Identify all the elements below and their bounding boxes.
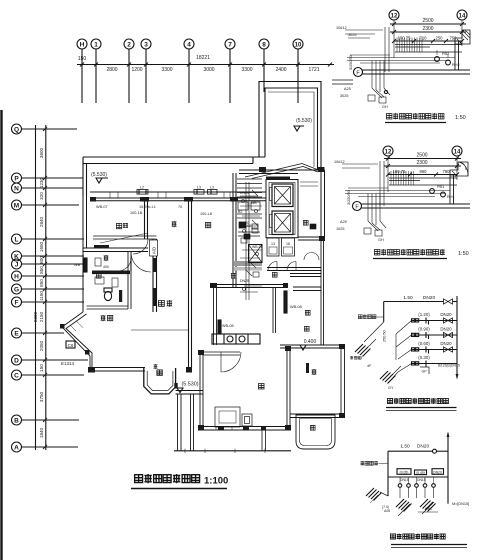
svg-text:WB: WB	[251, 201, 257, 205]
kitchen counter bottom	[212, 334, 260, 344]
svg-text:L: L	[15, 237, 19, 244]
svg-text:(0.05): (0.05)	[400, 470, 409, 474]
svg-text:H: H	[80, 42, 85, 49]
detail A grid drops	[394, 20, 462, 58]
bottom bedroom window ticks	[216, 427, 264, 431]
svg-text:(0.90): (0.90)	[418, 327, 430, 332]
bay tag C6	[66, 341, 75, 348]
study radiator black	[306, 363, 309, 373]
svg-text:760: 760	[443, 169, 451, 174]
grid line 10v	[297, 49, 299, 103]
grid bubble B	[12, 415, 22, 425]
room label dining	[172, 221, 177, 227]
svg-text:DN20: DN20	[417, 444, 430, 450]
svg-text:1:50: 1:50	[455, 115, 466, 121]
bath fixtures toilet	[104, 288, 112, 301]
svg-text:2: 2	[127, 42, 131, 49]
entry wall right unit lower	[293, 287, 322, 291]
svg-text:L3: L3	[210, 186, 214, 190]
svg-text:1025: 1025	[336, 227, 344, 231]
riser2 top pipe	[388, 444, 448, 454]
svg-text:PB1: PB1	[437, 185, 444, 189]
riser2 right vertical with arrow	[447, 432, 450, 504]
svg-text:A05: A05	[384, 509, 390, 513]
grid line 4v	[188, 49, 190, 103]
svg-text:250.50: 250.50	[383, 330, 387, 342]
svg-text:320: 320	[39, 192, 44, 200]
svg-text:GP1: GP1	[425, 507, 432, 511]
svg-text:G: G	[14, 287, 19, 294]
svg-text:H: H	[14, 274, 19, 281]
svg-text:J: J	[15, 262, 19, 269]
bath radiator black	[119, 290, 122, 302]
left dimension texts rotated	[33, 147, 44, 438]
detail B dim 2300	[384, 160, 461, 168]
svg-text:B: B	[14, 418, 19, 425]
riser2 radiator hatch 2	[418, 499, 438, 514]
svg-text:8: 8	[262, 42, 266, 49]
riser1 caption	[386, 398, 457, 411]
piping cluster left of core	[240, 182, 262, 300]
small labels under top wall	[96, 205, 212, 216]
hall mid wall	[212, 285, 287, 288]
detail B bottom wall	[362, 204, 471, 208]
detail B bubble 14	[452, 146, 462, 156]
svg-text:18: 18	[286, 242, 290, 246]
bottom-right balcony	[296, 415, 335, 449]
small room box	[95, 258, 109, 269]
terrace mid verticals	[262, 430, 266, 451]
window bay right-mid railing	[300, 182, 318, 186]
elevator 1	[272, 184, 293, 207]
room label small hall	[154, 364, 158, 369]
riser2 left vertical	[387, 451, 389, 496]
svg-text:WB-05: WB-05	[252, 245, 263, 249]
grid bubble C	[12, 370, 22, 380]
bath small boxes	[95, 277, 118, 287]
riser2 caption	[390, 534, 467, 548]
riser1 bracket symbol	[420, 367, 429, 374]
roof slope diagonals	[245, 164, 321, 179]
grid bubble M	[12, 200, 22, 210]
riser1 control valve label	[358, 315, 383, 320]
svg-text:(0.30): (0.30)	[418, 355, 430, 360]
svg-text:2500: 2500	[422, 18, 433, 24]
riser1 arrow labels	[367, 364, 394, 390]
grid bubble 10	[293, 39, 303, 49]
svg-text:13: 13	[271, 242, 275, 246]
detail A bubble 12	[389, 10, 399, 20]
detail A down pipes	[368, 61, 390, 104]
svg-text:12: 12	[385, 150, 392, 156]
bath door arc	[118, 258, 131, 271]
detail A F bubble	[354, 68, 363, 77]
svg-text:1: 1	[94, 42, 98, 49]
level marker 5.530 tower	[294, 118, 312, 131]
radiator top 1	[137, 186, 148, 195]
detail B valve circles	[430, 185, 455, 199]
hall entry door arc	[131, 252, 151, 272]
interior vertical right of hall	[273, 288, 276, 334]
party wall vertical center	[189, 288, 192, 368]
svg-text:(5.530): (5.530)	[91, 172, 107, 178]
grid bubble D	[12, 355, 22, 365]
grid bubble P	[12, 173, 22, 183]
svg-text:1:50: 1:50	[458, 251, 469, 257]
detail A bubble 14	[457, 10, 467, 20]
riser1 radiator symbol up	[355, 322, 384, 357]
bedroom sill black marks	[218, 427, 266, 430]
svg-text:P: P	[14, 176, 19, 183]
svg-text:3300: 3300	[161, 67, 172, 73]
grid bubble N	[12, 183, 22, 193]
svg-text:L2: L2	[140, 186, 144, 190]
left edge tag A/D	[150, 240, 158, 256]
svg-text:2300: 2300	[416, 160, 427, 166]
grid bubble 7	[225, 39, 235, 49]
grid bubble A	[12, 442, 22, 452]
svg-text:3: 3	[144, 42, 148, 49]
svg-text:DN20: DN20	[440, 327, 452, 332]
svg-text:M=[DN15]: M=[DN15]	[452, 502, 469, 506]
entry scallop doors	[304, 253, 319, 261]
svg-text:14: 14	[454, 150, 461, 156]
svg-text:(5.530): (5.530)	[181, 382, 198, 388]
svg-text:10#12: 10#12	[336, 26, 347, 30]
svg-text:GH: GH	[382, 105, 388, 109]
svg-text:DN25: DN25	[240, 191, 249, 195]
svg-text:10#12: 10#12	[334, 160, 345, 164]
corridor wall under left rooms	[93, 236, 157, 239]
svg-text:800: 800	[39, 256, 44, 264]
riser1 top valve	[444, 299, 453, 304]
hall floor step line	[131, 329, 188, 331]
detail B grid drops	[388, 156, 457, 192]
room label bedroom1	[116, 223, 121, 228]
room label right mid b	[304, 326, 309, 331]
detail B caption	[373, 249, 469, 259]
svg-text:3600: 3600	[39, 147, 44, 158]
grid bubble 4	[184, 39, 194, 49]
svg-text:100-1B: 100-1B	[130, 211, 143, 215]
detail B pipes	[342, 161, 450, 206]
hall left wall black seg	[153, 258, 157, 306]
svg-text:DN20: DN20	[433, 470, 442, 474]
corridor leader line	[100, 233, 148, 243]
svg-text:1:100: 1:100	[204, 476, 228, 487]
grid bubble G	[12, 284, 22, 294]
grid line 1v	[81, 49, 83, 103]
left radiator on wall	[74, 258, 87, 272]
svg-text:3000: 3000	[203, 67, 214, 73]
riser2 left label glyphs	[360, 461, 388, 466]
room label kitchen	[205, 222, 210, 227]
right lower room top wall	[280, 345, 345, 348]
right-mid small box	[310, 224, 316, 229]
svg-text:2400: 2400	[275, 67, 286, 73]
terrace small box	[242, 414, 252, 426]
detail B bottom labels	[336, 220, 384, 242]
svg-text:(1.20): (1.20)	[418, 312, 430, 317]
detail A dim 2300	[390, 26, 466, 34]
grid bubble 3	[141, 39, 151, 49]
svg-text:250: 250	[436, 36, 444, 41]
svg-text:C: C	[14, 373, 19, 380]
room label study	[312, 369, 317, 375]
riser1 row 4	[412, 355, 460, 368]
svg-text:GH: GH	[378, 238, 384, 242]
svg-text:DN15: DN15	[417, 478, 426, 482]
svg-text:1.50: 1.50	[403, 295, 413, 301]
entry wall right unit	[290, 274, 322, 277]
svg-text:A: A	[14, 445, 19, 452]
detail B down pipes	[364, 194, 386, 237]
svg-text:DN20: DN20	[440, 312, 452, 317]
svg-text:(5.530): (5.530)	[296, 118, 312, 124]
stairwell labels	[238, 210, 251, 228]
svg-text:10: 10	[295, 43, 302, 49]
left exterior wall	[83, 196, 87, 312]
interior wall room2-3	[189, 201, 192, 288]
riser1 row 2	[412, 327, 458, 340]
riser2 box row	[397, 469, 444, 475]
small room B below core	[282, 238, 295, 256]
detail B right wall	[450, 174, 454, 204]
room label bath	[96, 273, 101, 278]
left grid lines	[22, 128, 78, 130]
detail A left leader texts	[336, 26, 356, 37]
svg-text:15.70c-L1: 15.70c-L1	[139, 205, 156, 209]
svg-text:PB2: PB2	[442, 52, 449, 56]
bottom bedroom walls	[200, 348, 291, 430]
svg-text:1150: 1150	[39, 291, 44, 301]
detail A dim segments	[392, 36, 464, 44]
stair flight gray band 2	[234, 267, 262, 271]
room label bay bedroom	[101, 315, 113, 321]
wall below tower right	[298, 237, 325, 240]
svg-text:710: 710	[420, 36, 428, 41]
svg-text:18221: 18221	[196, 55, 210, 61]
detail A dim 2500	[390, 18, 466, 26]
svg-text:N: N	[14, 186, 19, 193]
bath bottom wall	[87, 306, 129, 309]
svg-text:3025: 3025	[348, 33, 356, 37]
svg-text:4F: 4F	[367, 364, 372, 368]
riser1 right vertical	[456, 296, 459, 379]
svg-text:Q: Q	[14, 127, 19, 134]
steps box bottom	[215, 407, 240, 427]
svg-text:1.50: 1.50	[400, 444, 410, 450]
svg-text:DN25: DN25	[240, 279, 249, 283]
balcony glyph	[157, 370, 162, 375]
caption: third floor heating plan	[131, 474, 228, 489]
svg-text:860: 860	[420, 169, 428, 174]
riser2 dn labels	[400, 478, 426, 482]
grid line 3v	[145, 49, 147, 103]
svg-text:3750: 3750	[39, 391, 44, 402]
svg-text:L3: L3	[197, 186, 201, 190]
detail B F bubble	[353, 202, 362, 211]
elevator core outer	[266, 177, 298, 238]
top dimension texts	[78, 55, 320, 73]
radiator hall left	[218, 320, 234, 334]
svg-text:GP: GP	[422, 370, 428, 374]
grid bubble J	[12, 259, 22, 269]
svg-text:A/D: A/D	[152, 247, 157, 254]
svg-text:14: 14	[459, 14, 466, 20]
riser1 radiator symbol down	[380, 366, 401, 384]
svg-text:7: 7	[228, 42, 232, 49]
svg-text:2840: 2840	[39, 216, 44, 227]
top dimension line	[77, 64, 334, 66]
svg-text:12: 12	[391, 14, 398, 20]
svg-text:DN15: DN15	[400, 478, 409, 482]
terrace parapet top band	[83, 157, 259, 196]
riser2 left corner hatch	[366, 488, 388, 503]
grid bubble F	[12, 297, 22, 307]
svg-text:C6: C6	[68, 343, 74, 348]
terrace step verticals	[178, 394, 194, 451]
svg-text:1721: 1721	[308, 67, 319, 73]
svg-text:WB-08: WB-08	[222, 324, 234, 328]
detail B dim 2500	[384, 153, 461, 161]
svg-text:DN20: DN20	[423, 295, 436, 301]
bay window bedroom lower-left	[62, 312, 92, 368]
svg-text:2150: 2150	[39, 311, 44, 322]
grid bubble K	[12, 251, 22, 261]
interior wall room1-2	[145, 201, 148, 239]
detail A left wall stub	[332, 80, 353, 84]
corridor door arc 1	[268, 262, 277, 271]
detail A bottom wall	[363, 70, 471, 74]
svg-text:1230: 1230	[39, 177, 44, 188]
room label balcony right-mid	[303, 220, 308, 225]
svg-text:2300: 2300	[422, 26, 433, 32]
level marker 5.530 top-left	[91, 172, 108, 183]
svg-text:F: F	[356, 70, 360, 76]
svg-text:4: 4	[187, 42, 191, 49]
window tick top wall	[110, 192, 230, 198]
riser2 bottom small labels	[382, 505, 432, 513]
piping labels cluster	[240, 191, 263, 283]
detail B bubble 12	[383, 146, 393, 156]
svg-text:400: 400	[103, 265, 109, 269]
radiator hall right	[284, 291, 302, 313]
svg-text:GY: GY	[388, 386, 394, 390]
svg-text:2800: 2800	[106, 67, 117, 73]
svg-text:WB-08: WB-08	[290, 305, 302, 309]
study bottom wall	[290, 414, 345, 418]
left vertical dimension chain	[45, 125, 47, 450]
level marker 0.400	[300, 339, 316, 350]
svg-text:100-L8: 100-L8	[200, 212, 212, 216]
hall left wall	[153, 239, 157, 312]
detail A bottom labels	[340, 87, 388, 109]
tower top right block	[259, 82, 325, 171]
riser1 left vertical	[383, 302, 385, 323]
study room right wall	[341, 348, 345, 417]
hall vertical wall	[214, 288, 217, 346]
room label bottom bedroom	[258, 383, 264, 389]
svg-text:A25: A25	[340, 220, 347, 224]
riser2 mid pipe	[388, 476, 448, 478]
detail B corner block	[450, 162, 468, 176]
small room A below core	[267, 238, 279, 256]
corridor door arc 2	[287, 262, 296, 271]
svg-text:WB-07: WB-07	[96, 205, 108, 209]
svg-text:150: 150	[39, 364, 44, 372]
grid line 8v	[263, 49, 265, 92]
wall pier black top	[94, 245, 109, 248]
svg-text:D: D	[14, 358, 19, 365]
corridor wall right	[267, 268, 322, 271]
svg-text:(0.45): (0.45)	[416, 471, 425, 475]
interior wall room3-core	[233, 173, 236, 288]
svg-text:E: E	[14, 331, 19, 338]
svg-text:M: M	[14, 203, 19, 210]
top rooms face wall	[90, 198, 266, 201]
svg-text:WB: WB	[74, 263, 81, 267]
grid bubble 8	[259, 39, 269, 49]
grid bubble 2	[124, 39, 134, 49]
riser1 top pipe	[384, 295, 457, 302]
left balcony rounded	[144, 368, 178, 394]
svg-text:2300: 2300	[33, 311, 38, 322]
svg-text:A25: A25	[344, 87, 351, 91]
bath top wall	[83, 248, 148, 252]
stair flight gray band	[234, 261, 262, 266]
grid bubble L	[12, 234, 22, 244]
small room glyph	[104, 255, 109, 261]
grid bubble Q	[12, 124, 22, 134]
svg-text:100 75: 100 75	[393, 169, 406, 174]
hall door arc bottom	[221, 352, 241, 372]
riser2 radiator hatch 1	[396, 499, 412, 516]
wall junction piers black	[60, 167, 345, 431]
svg-text:F: F	[15, 300, 19, 307]
riser2 component row	[398, 477, 435, 487]
detail B dim segments	[386, 169, 459, 177]
svg-text:E1314: E1314	[61, 361, 75, 366]
svg-text:2500: 2500	[416, 153, 427, 159]
stair shaft box	[249, 245, 263, 263]
entry recess wall B	[176, 391, 203, 395]
svg-text:2050: 2050	[39, 340, 44, 351]
svg-text:70: 70	[178, 205, 182, 209]
svg-text:B215(B)DN15: B215(B)DN15	[438, 364, 460, 368]
grid bubble E	[12, 328, 22, 338]
room label corridor1	[231, 273, 236, 278]
door arc left room	[133, 239, 148, 254]
svg-text:150: 150	[78, 56, 87, 62]
detail B wall hatch band	[389, 171, 457, 185]
room label hall	[158, 300, 172, 307]
grid bubble Hl	[12, 271, 22, 281]
detail A valve circles	[435, 50, 460, 67]
grid line 2v	[128, 49, 130, 103]
svg-text:0.400: 0.400	[304, 339, 317, 345]
terrace edge bottom	[174, 449, 291, 454]
elevator 2	[272, 211, 293, 235]
svg-text:850: 850	[39, 266, 44, 274]
radiator top 3	[208, 186, 218, 195]
svg-text:DN20: DN20	[440, 341, 452, 346]
svg-text:F: F	[355, 204, 359, 210]
svg-text:1650: 1650	[39, 241, 44, 252]
stairwell rungs	[237, 179, 262, 239]
detail A pipes horizontal	[345, 27, 455, 72]
svg-text:DN20: DN20	[240, 221, 249, 225]
